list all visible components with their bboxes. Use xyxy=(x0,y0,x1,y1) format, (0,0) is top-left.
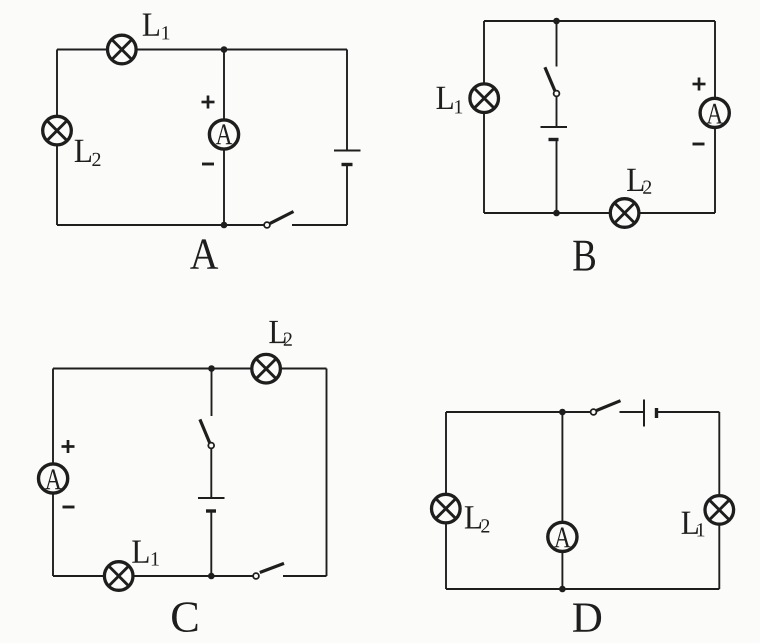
wire: C left side xyxy=(52,369,54,577)
battery (circuit D) xyxy=(644,400,657,427)
junction: B top node xyxy=(553,18,560,25)
wire: B middle branch switch to battery xyxy=(556,96,558,127)
label L2 (circuit D) xyxy=(465,506,489,532)
label: circuit C xyxy=(172,602,197,632)
label L1 (circuit C) xyxy=(132,541,159,566)
wire: C bottom side right of switch xyxy=(283,575,327,577)
+ polarity mark (circuit A) xyxy=(202,96,215,109)
ammeter A1 (circuit B) xyxy=(700,98,729,127)
wire: C right side xyxy=(326,369,328,577)
junction: C top node xyxy=(208,365,215,372)
wire: D right side xyxy=(718,412,720,589)
wire: C middle branch below battery xyxy=(210,511,212,576)
lamp L2 (circuit B) xyxy=(610,199,639,228)
wire: B left side xyxy=(483,21,485,213)
label: circuit D xyxy=(573,604,601,632)
wire: D middle branch xyxy=(561,412,563,589)
lamp L1 (circuit D) xyxy=(705,496,734,525)
lamp L1 (circuit B) xyxy=(470,84,499,113)
label: circuit B xyxy=(573,241,595,271)
battery (circuit B) xyxy=(541,127,568,140)
switch S1 (circuit D) xyxy=(591,401,621,415)
lamp L1 (circuit A) xyxy=(108,35,137,64)
label L1 (circuit D) xyxy=(682,512,705,537)
+ polarity mark (circuit C) xyxy=(62,440,75,453)
wire: A right side below battery xyxy=(346,165,348,226)
junction: C bottom node xyxy=(208,573,215,580)
wire: C middle branch switch to battery xyxy=(210,448,212,498)
wire: B bottom side xyxy=(484,212,715,214)
label L2 (circuit A) xyxy=(75,140,101,166)
lamp L2 (circuit D) xyxy=(432,494,461,523)
wire: A left side xyxy=(56,50,58,226)
wire: A middle branch xyxy=(223,50,225,226)
lamp L1 (circuit C) xyxy=(104,562,133,591)
ammeter letter (circuit D) xyxy=(554,527,570,547)
wire: A bottom side left of switch xyxy=(57,224,265,226)
label L1 (circuit B) xyxy=(437,87,463,114)
switch S1 (circuit A) xyxy=(264,212,293,228)
label L2 (circuit C) xyxy=(269,321,291,346)
junction: A top node xyxy=(221,46,228,53)
label L1 (circuit A) xyxy=(143,14,170,40)
junction: D bottom node xyxy=(559,586,566,593)
wire: C bottom side left of switch xyxy=(53,575,254,577)
wire: B top side xyxy=(484,20,715,22)
+ polarity mark (circuit B) xyxy=(693,78,706,91)
wire: B right side xyxy=(714,21,716,213)
switch S1 (circuit B) xyxy=(545,67,559,96)
junction: A bottom node xyxy=(221,222,228,229)
wire: C top side xyxy=(53,368,327,370)
ammeter letter (circuit B) xyxy=(706,104,722,124)
wire: B middle branch upper stub xyxy=(556,21,558,67)
switch S2 (circuit C bottom) xyxy=(253,563,284,578)
label L2 (circuit B) xyxy=(627,169,651,194)
- polarity mark (circuit B) xyxy=(693,143,705,146)
ammeter A1 (circuit A) xyxy=(209,120,238,149)
lamp L2 (circuit A) xyxy=(43,116,72,145)
wire: D top side switch to battery xyxy=(620,411,645,413)
wire: D bottom side xyxy=(446,588,719,590)
wire: D top side left of switch xyxy=(446,411,591,413)
battery (circuit A) xyxy=(334,151,361,165)
wire: A bottom side right of switch xyxy=(292,224,347,226)
wire: A top side xyxy=(57,49,347,51)
ammeter A1 (circuit D) xyxy=(548,522,577,551)
wire: B middle branch below battery xyxy=(556,140,558,214)
lamp L2 (circuit C) xyxy=(252,354,281,383)
wire: D left side xyxy=(445,412,447,589)
battery (circuit C) xyxy=(198,498,225,511)
- polarity mark (circuit A) xyxy=(202,163,214,166)
label: circuit A xyxy=(190,239,218,268)
ammeter A1 (circuit C) xyxy=(39,464,68,493)
ammeter letter (circuit C) xyxy=(45,469,61,489)
junction: B bottom node xyxy=(553,210,560,217)
ammeter letter (circuit A) xyxy=(216,124,232,144)
wire: C middle branch upper stub xyxy=(211,369,213,417)
wire: D top side right of battery xyxy=(657,411,720,413)
- polarity mark (circuit C) xyxy=(63,506,75,509)
wire: A right side above battery xyxy=(346,50,348,151)
junction: D top node xyxy=(559,409,566,416)
switch S1 (circuit C middle branch) xyxy=(200,419,214,448)
